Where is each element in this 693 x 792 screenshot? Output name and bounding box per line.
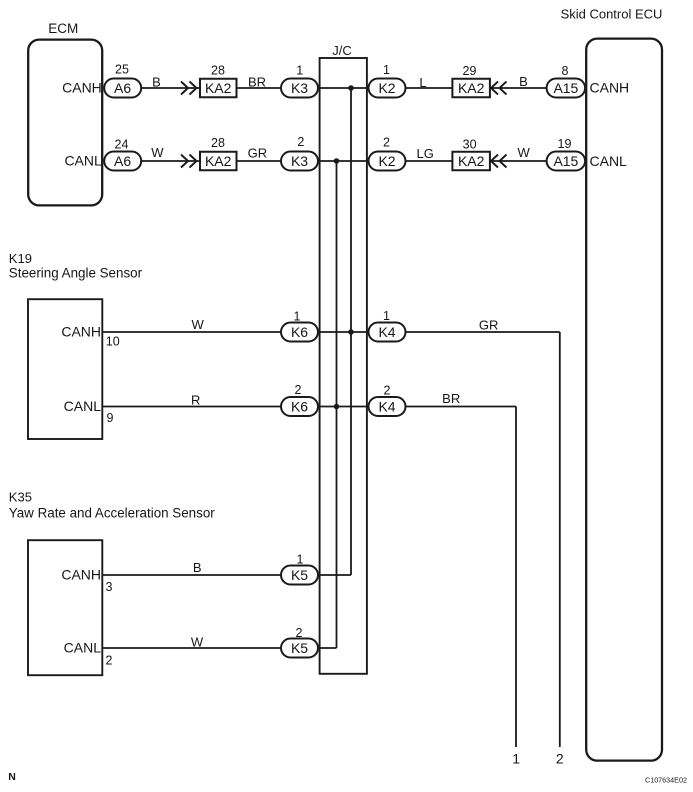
svg-text:2: 2 [295, 383, 302, 397]
svg-text:3: 3 [106, 580, 113, 594]
svg-text:1: 1 [383, 309, 390, 323]
svg-text:GR: GR [248, 146, 268, 161]
svg-text:K6: K6 [291, 399, 308, 415]
svg-text:CANH: CANH [61, 324, 101, 340]
svg-text:K4: K4 [378, 324, 395, 340]
svg-text:8: 8 [562, 64, 569, 78]
svg-text:2: 2 [384, 383, 391, 397]
svg-text:KA2: KA2 [458, 80, 485, 96]
svg-text:B: B [519, 74, 528, 89]
connector A6 pin 24 oval [104, 152, 141, 171]
wire row4 K19 CANL to K4 [102, 406, 516, 408]
svg-text:N: N [8, 771, 16, 783]
junction dot row2 left bus [334, 158, 340, 164]
svg-text:KA2: KA2 [205, 153, 232, 169]
svg-text:K4: K4 [378, 399, 395, 415]
svg-text:BR: BR [248, 74, 266, 89]
wire 1 vertical BR to bottom [515, 407, 517, 748]
svg-text:K2: K2 [378, 80, 395, 96]
svg-text:ECM: ECM [48, 21, 78, 36]
svg-text:Yaw Rate and Acceleration Sens: Yaw Rate and Acceleration Sensor [9, 506, 215, 521]
connector K5 pin 1 oval [281, 566, 318, 585]
connector KA2 pin 30 box row2 [452, 152, 490, 171]
junction dot row3 right bus [348, 329, 354, 335]
svg-text:B: B [193, 560, 202, 575]
svg-text:B: B [152, 74, 161, 89]
wire row2 CANL: ECM A6 to A15 [141, 160, 547, 162]
connector A15 pin 19 oval [547, 152, 586, 171]
wire row3 K19 CANH to K4 [102, 331, 560, 333]
svg-text:W: W [191, 634, 204, 649]
svg-text:K5: K5 [291, 640, 308, 656]
svg-text:29: 29 [463, 64, 477, 78]
svg-text:9: 9 [107, 411, 114, 425]
svg-text:1: 1 [512, 751, 520, 767]
svg-text:A15: A15 [553, 153, 578, 169]
svg-text:W: W [192, 317, 205, 332]
svg-text:2: 2 [296, 626, 303, 640]
svg-text:CANL: CANL [64, 398, 102, 414]
svg-text:2: 2 [383, 136, 390, 150]
junction dot row1 right bus [348, 85, 354, 91]
svg-text:BR: BR [442, 391, 460, 406]
svg-text:K3: K3 [291, 80, 308, 96]
svg-text:1: 1 [383, 63, 390, 77]
svg-text:30: 30 [463, 138, 477, 152]
svg-text:CANL: CANL [64, 640, 102, 656]
ECM box [28, 40, 102, 206]
wire row6 K35 CANL to left bus [102, 647, 336, 649]
svg-text:2: 2 [556, 751, 564, 767]
connector K3 pin 2 oval [281, 152, 318, 171]
connector K6 pin 1 oval [281, 323, 318, 342]
connector K3 pin 1 oval [281, 79, 318, 98]
svg-text:K3: K3 [291, 153, 308, 169]
wire row5 K35 CANH to right bus [102, 574, 351, 576]
svg-text:1: 1 [294, 309, 301, 323]
connector A15 pin 8 oval [547, 79, 586, 98]
junction connector J/C box [320, 58, 367, 674]
svg-text:K5: K5 [291, 567, 308, 583]
svg-text:2: 2 [297, 135, 304, 149]
svg-text:25: 25 [115, 63, 129, 77]
connector K2 pin 1 oval [369, 79, 406, 98]
K19 steering angle sensor box [28, 299, 102, 439]
svg-text:W: W [151, 145, 164, 160]
svg-text:A6: A6 [114, 153, 131, 169]
connector K6 pin 2 oval [281, 397, 318, 416]
splice arrows row2 right [491, 155, 498, 168]
connector KA2 pin 28 box row2 [200, 152, 237, 171]
K35 yaw rate and acceleration sensor box [28, 540, 102, 675]
svg-text:28: 28 [211, 136, 225, 150]
svg-text:CANL: CANL [590, 153, 628, 169]
wire row1 CANH: ECM A6 to A15 [141, 87, 547, 89]
svg-text:LG: LG [417, 146, 434, 161]
J/C left bus wire [336, 161, 338, 648]
svg-text:K2: K2 [378, 153, 395, 169]
svg-text:W: W [517, 145, 530, 160]
svg-text:K6: K6 [291, 324, 308, 340]
svg-text:19: 19 [558, 137, 572, 151]
connector K4 pin 2 oval [369, 397, 406, 416]
svg-text:24: 24 [115, 137, 129, 151]
splice arrows row1 left [181, 82, 188, 95]
svg-text:K35: K35 [9, 490, 32, 505]
svg-text:A6: A6 [114, 80, 131, 96]
svg-text:J/C: J/C [332, 43, 352, 58]
Skid Control ECU box [586, 39, 662, 761]
svg-text:CANL: CANL [64, 153, 102, 169]
connector K5 pin 2 oval [281, 639, 318, 658]
splice arrows row2 left [181, 155, 188, 168]
svg-text:Skid Control ECU: Skid Control ECU [561, 7, 663, 22]
connector KA2 pin 29 box row1 [452, 79, 490, 98]
svg-text:KA2: KA2 [205, 80, 232, 96]
svg-text:28: 28 [211, 64, 225, 78]
connector K4 pin 1 oval [369, 323, 406, 342]
svg-text:R: R [191, 392, 200, 407]
connector KA2 pin 28 box row1 [200, 79, 237, 98]
svg-text:C107634E02: C107634E02 [645, 776, 687, 785]
J/C right bus wire [350, 88, 352, 575]
svg-text:CANH: CANH [61, 567, 101, 583]
junction dot row4 left bus [334, 404, 340, 410]
svg-text:GR: GR [479, 318, 499, 333]
svg-text:2: 2 [106, 654, 113, 668]
connector K2 pin 2 oval [369, 152, 406, 171]
connector A6 pin 25 oval [104, 79, 141, 98]
svg-text:CANH: CANH [62, 80, 102, 96]
svg-text:L: L [419, 75, 426, 90]
svg-text:1: 1 [297, 552, 304, 566]
svg-text:CANH: CANH [590, 80, 630, 96]
svg-text:KA2: KA2 [458, 153, 485, 169]
svg-text:A15: A15 [553, 80, 578, 96]
svg-text:1: 1 [296, 63, 303, 77]
svg-text:Steering Angle Sensor: Steering Angle Sensor [9, 266, 143, 281]
wire 2 vertical GR to bottom [559, 332, 561, 747]
svg-text:10: 10 [106, 334, 120, 348]
splice arrows row1 right [491, 82, 498, 95]
svg-text:K19: K19 [9, 251, 32, 266]
